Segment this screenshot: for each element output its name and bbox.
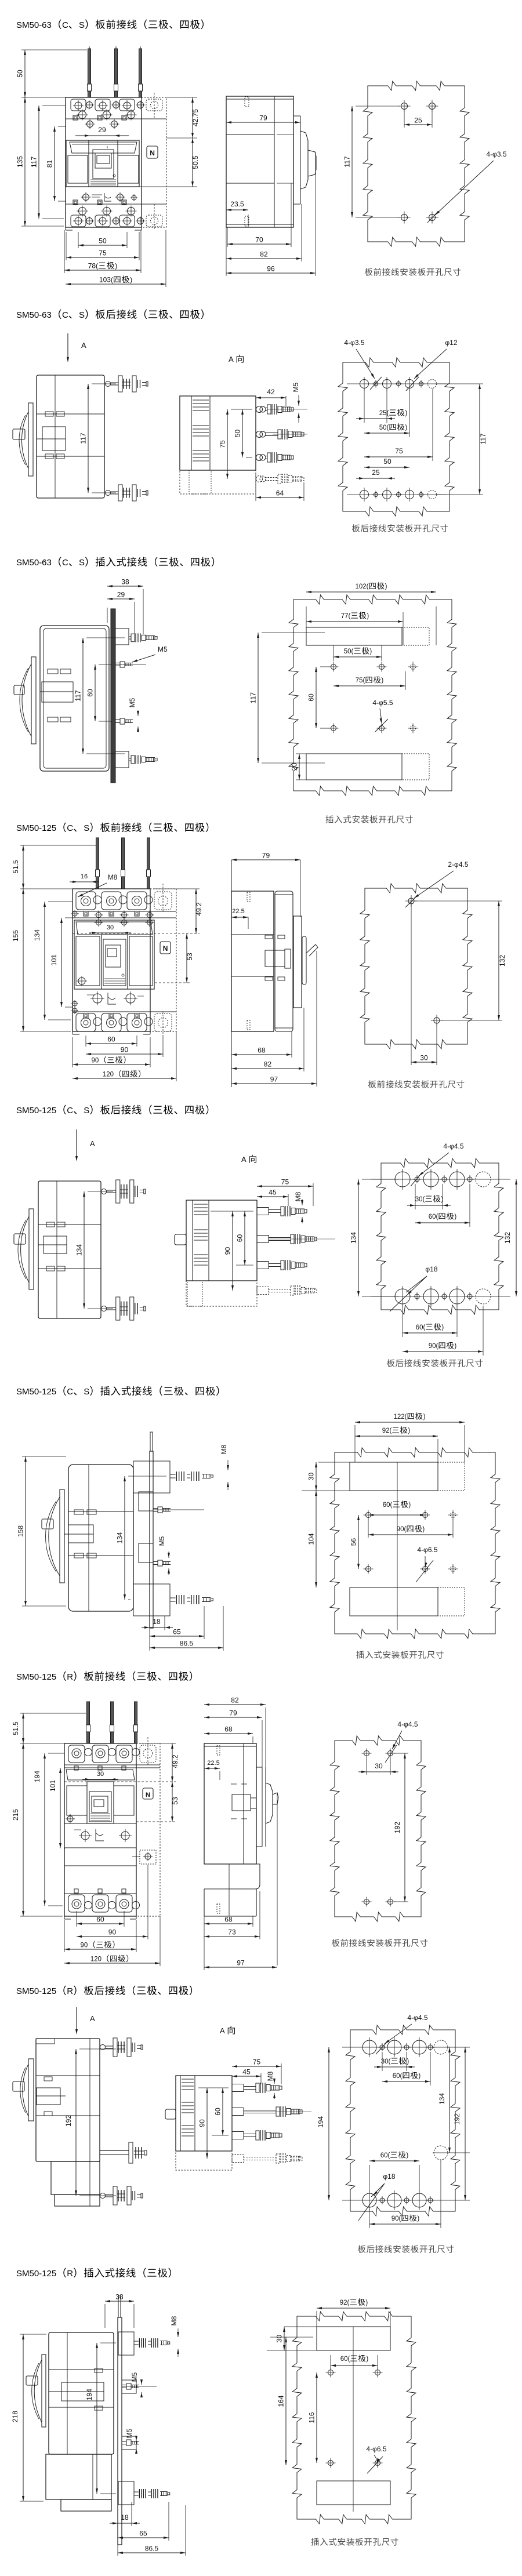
svg-text:A: A (90, 1139, 95, 1148)
A-view stud pole2 (232, 2108, 244, 2116)
plate dimension 30 slot height (318, 1462, 350, 1463)
svg-text:φ18: φ18 (425, 1265, 437, 1273)
svg-text:): ) (422, 1526, 425, 1533)
plate dimension 134 left (362, 1179, 399, 1180)
bottom dimension 120 (4-pole) (176, 1031, 177, 1081)
dimension 38 (104, 2304, 106, 2328)
N-pole marking box (143, 1788, 153, 1799)
dimension 38 (107, 608, 108, 623)
top bracket block (118, 2332, 134, 2355)
svg-text:M8: M8 (266, 2071, 274, 2081)
mounting plate board-rear 125 (376, 1158, 503, 1314)
front view SM50-63 body outline (66, 97, 142, 227)
dimension 192 stud spacing (79, 2048, 116, 2050)
svg-text:97: 97 (270, 1076, 278, 1084)
svg-text:60: 60 (236, 1234, 244, 1242)
upper pilot bracket and stud (139, 1492, 153, 1511)
svg-text:92(: 92( (340, 2299, 350, 2306)
svg-text:132: 132 (498, 955, 506, 967)
caption board-rear plate 125 (387, 1359, 395, 1367)
plate hole bottom-left (401, 215, 408, 221)
left fixing screws (72, 1001, 77, 1006)
svg-text:104: 104 (307, 1533, 316, 1545)
svg-text:SM50-125: SM50-125 (16, 1387, 56, 1397)
bottom dimensions 18 65 86.5 (149, 1628, 150, 1651)
plate top slot (317, 2327, 390, 2350)
auxiliary terminal dotted (140, 1850, 156, 1864)
plate dimension 116 (316, 2372, 317, 2463)
front view 4-pole dashed extension (136, 1743, 160, 1916)
mechanism column (101, 935, 128, 989)
operating toggle assembly (60, 1489, 64, 1583)
plate dimension 60 (4-pole) (469, 1184, 470, 1227)
terminal pins (87, 1702, 90, 1743)
svg-text:4-φ4.5: 4-φ4.5 (407, 2014, 427, 2022)
plate dimension 25 (3-pole) (364, 388, 365, 423)
svg-text:R: R (67, 1986, 73, 1996)
toggle shaft box (42, 682, 73, 702)
dimension 194 (48, 1753, 64, 1754)
trip unit row (93, 994, 102, 1003)
svg-text:90(: 90( (397, 1526, 407, 1533)
screw and pole-number row (72, 911, 77, 916)
A-view dimension 50 (246, 457, 252, 458)
svg-text:117: 117 (79, 433, 88, 444)
bottom dimension 90 (3-pole) (64, 1920, 65, 1952)
svg-text:75: 75 (281, 1178, 289, 1186)
caption plug-in plate (325, 815, 333, 823)
plate dimension 30 (366, 1758, 367, 1775)
mounting plate board-rear drill plan (338, 358, 454, 516)
side view dimension 79 (262, 1720, 263, 1767)
rear stud top row (101, 1189, 107, 1194)
svg-text:97: 97 (237, 1959, 245, 1967)
right pole chamber (129, 936, 153, 986)
side view dimension 79 (226, 122, 300, 123)
dimension 50.5 (139, 186, 197, 187)
plate left reference lines (262, 632, 325, 633)
plate centreline (397, 1462, 398, 1630)
plug-in side view body (40, 626, 109, 771)
svg-text:): ) (418, 2073, 420, 2080)
svg-text:50(: 50( (344, 648, 354, 655)
svg-text:): ) (407, 2058, 409, 2065)
svg-text:56: 56 (350, 1538, 358, 1546)
svg-text:): ) (406, 2152, 408, 2159)
svg-text:SM50-63: SM50-63 (16, 20, 52, 30)
plate centreline (353, 2327, 354, 2512)
svg-text:M5: M5 (125, 2428, 133, 2438)
side view dimension 22.5 (219, 1771, 220, 1780)
plate dimension 134 (449, 2047, 450, 2153)
svg-text:): ) (366, 2356, 368, 2363)
plate dimension 25 lower (364, 478, 387, 479)
svg-text:): ) (441, 1196, 443, 1203)
mechanism column (87, 1782, 114, 1823)
mounting plate bar (118, 2317, 122, 2545)
svg-text:16: 16 (81, 873, 88, 880)
A-view stud pole2 (256, 431, 263, 438)
plate upper holes (366, 1513, 371, 1518)
lower extension body R (46, 2454, 111, 2499)
svg-text:4-φ3.5: 4-φ3.5 (486, 150, 506, 158)
rear stud bottom row (100, 2193, 106, 2199)
A-view stud pole3 (232, 2132, 244, 2139)
svg-text:215: 215 (12, 1809, 20, 1821)
svg-text:22.5: 22.5 (207, 1760, 219, 1767)
svg-text:SM50-125: SM50-125 (16, 1986, 56, 1996)
svg-text:92(: 92( (382, 1427, 392, 1434)
svg-text:194: 194 (317, 2116, 325, 2128)
svg-text:135: 135 (16, 156, 24, 168)
svg-text:60(: 60( (416, 1324, 426, 1331)
svg-text:): ) (130, 276, 132, 284)
svg-text:101: 101 (50, 954, 58, 966)
plate bottom hole row phi18 (362, 2193, 376, 2207)
side view boss (265, 950, 285, 967)
right pole chamber (118, 155, 139, 183)
A-view dimension 45 (288, 1194, 289, 1206)
dimension 81 mechanism height (58, 126, 66, 127)
svg-text:): ) (369, 648, 372, 655)
svg-text:4-φ4.5: 4-φ4.5 (397, 1720, 418, 1728)
N-pole marking box (147, 146, 158, 158)
svg-text:M5: M5 (158, 645, 168, 653)
plate dimension 60 (3-pole) bottom (402, 1306, 403, 1337)
bottom dimension 60 (76, 1911, 77, 1927)
svg-text:90(: 90( (391, 2215, 401, 2222)
svg-text:134: 134 (350, 1232, 358, 1244)
view direction arrow A (76, 2007, 77, 2032)
svg-text:90: 90 (81, 1942, 88, 1949)
plate top hole row phi18 (395, 1172, 410, 1187)
A-view dimension 90 (198, 2087, 229, 2088)
A-view dimension 60 (212, 2135, 229, 2136)
side view bottom dimensions 68 73 97 (252, 1916, 253, 1927)
svg-text:79: 79 (229, 1709, 237, 1717)
svg-text:29: 29 (98, 126, 106, 134)
svg-text:30: 30 (375, 1762, 383, 1770)
svg-text:): ) (365, 2299, 368, 2306)
plate dimension 117 (356, 106, 400, 107)
case feet (64, 1916, 65, 1919)
caption R board-front plate (332, 1939, 340, 1946)
top bracket block (133, 1461, 170, 1493)
left pole chamber (67, 1786, 87, 1815)
side view dimension 68 (252, 1736, 253, 1743)
bottom bracket block (118, 2481, 134, 2505)
plate lower holes (328, 2461, 333, 2466)
svg-text:30: 30 (420, 1054, 428, 1062)
A-direction view body (180, 396, 256, 470)
plug-in mounting plate (289, 595, 456, 795)
case feet (65, 227, 66, 230)
svg-text:75: 75 (395, 447, 403, 455)
side view bracket plate (293, 916, 302, 1008)
svg-text:29: 29 (117, 591, 125, 599)
svg-text:68: 68 (224, 1725, 233, 1734)
caption board-front plate 125 (368, 1080, 376, 1088)
operating toggle assembly (29, 1209, 34, 1289)
plate upper holes (331, 664, 336, 670)
svg-text:2-φ4.5: 2-φ4.5 (448, 860, 468, 869)
plate dimension 92 (3-pole) (437, 1439, 438, 1462)
svg-text:158: 158 (17, 1525, 25, 1537)
plate dimension 50 (3-pole) (333, 645, 334, 661)
plate middle dashed hole (434, 2146, 448, 2160)
svg-text:68: 68 (224, 1916, 233, 1924)
top main stud M8 (170, 1474, 176, 1475)
dashed 4th pole top pad (140, 1745, 156, 1763)
bottom dimension 90 (162, 1036, 164, 1057)
dimension 134 (48, 901, 72, 902)
svg-text:C: C (62, 20, 68, 30)
bottom dimension 75 (66, 232, 67, 260)
svg-text:): ) (405, 424, 407, 431)
svg-text:49.2: 49.2 (171, 1754, 179, 1768)
front view 4-pole dashed extension (142, 97, 166, 227)
mounting plate board-front drill plan 125 (360, 884, 472, 1049)
svg-text:60(: 60( (429, 1213, 438, 1220)
svg-text:218: 218 (11, 2411, 19, 2422)
left pole chamber (76, 936, 100, 986)
A-view dimension 64 (255, 473, 256, 501)
svg-text:30(: 30( (381, 2058, 391, 2065)
svg-text:S: S (79, 558, 85, 568)
svg-text:18: 18 (153, 1618, 161, 1626)
svg-text:60: 60 (107, 1036, 115, 1044)
R extension boundary (64, 1865, 136, 1866)
A-view dashed N stud (257, 1287, 269, 1295)
toggle shaft box (68, 1525, 93, 1543)
bottom bracket block (133, 1584, 170, 1616)
plate lower holes (366, 1567, 371, 1572)
svg-text:S: S (84, 1106, 89, 1116)
caption board-rear plate (352, 524, 360, 532)
side view dimension 23.5 (248, 215, 249, 226)
svg-text:117: 117 (249, 692, 258, 703)
plate dimension 132 (415, 900, 502, 902)
hole row centrelines (342, 2047, 470, 2048)
plate dimension 50 (4-pole) (409, 388, 410, 437)
svg-text:C: C (62, 558, 68, 568)
svg-text:86.5: 86.5 (180, 1640, 194, 1648)
plate top hole row (360, 380, 369, 388)
operating toggle assembly (28, 2059, 34, 2121)
plate dimension 30 slot (284, 2326, 317, 2327)
svg-text:79: 79 (262, 852, 270, 860)
svg-text:192: 192 (64, 2115, 72, 2127)
svg-text:51.5: 51.5 (12, 860, 20, 874)
top locating rod (150, 1432, 153, 1451)
dimension 53 (155, 982, 190, 983)
lower extension body (51, 2161, 100, 2194)
front view 4-pole dashed extension (150, 889, 176, 1031)
plate dimension 60 vertical (320, 666, 329, 667)
svg-text:M8: M8 (220, 1444, 228, 1454)
plate bottom slot (306, 754, 402, 780)
svg-text:68: 68 (258, 1047, 266, 1055)
vent screws (87, 121, 93, 128)
svg-text:82: 82 (260, 250, 268, 259)
svg-text:122(: 122( (394, 1414, 407, 1420)
dimension 155 overall (20, 888, 72, 889)
rear stud bottom row (101, 1306, 107, 1311)
svg-text:): ) (454, 1213, 456, 1220)
A-view dashed N stud (256, 476, 263, 482)
svg-text:42: 42 (267, 388, 275, 396)
svg-text:86.5: 86.5 (145, 2545, 159, 2553)
A-view knob (175, 1234, 186, 1245)
svg-text:64: 64 (276, 489, 284, 497)
plate dimension 132 right (516, 1179, 517, 1296)
plate bottom slot (317, 2481, 390, 2505)
side view tabs (231, 1783, 237, 1785)
bottom main stud M8 (170, 1597, 176, 1598)
svg-text:194: 194 (33, 1771, 41, 1782)
svg-text:116: 116 (308, 2412, 316, 2423)
side view boss (232, 1794, 251, 1811)
dimension 53 (136, 1821, 176, 1822)
operating mechanism column (89, 140, 118, 187)
caption plug-in plate R (311, 2538, 318, 2545)
svg-text:30: 30 (107, 924, 114, 931)
N-pole marking box (160, 942, 171, 954)
svg-text:): ) (423, 1414, 426, 1420)
dimension 60 pilot spacing (99, 664, 112, 665)
plate lower holes (331, 726, 336, 731)
dashed 4th pole top pad (146, 99, 162, 111)
top terminal pads (71, 99, 86, 111)
mechanism frame (66, 140, 139, 187)
svg-text:M5: M5 (130, 2372, 139, 2382)
plate dimension 77 (3-pole) (403, 612, 404, 645)
svg-text:164: 164 (277, 2395, 285, 2407)
left side view body (38, 1181, 101, 1318)
svg-text:101: 101 (49, 1780, 57, 1792)
svg-text:SM50-125: SM50-125 (16, 1106, 56, 1116)
dimension 49.2 (153, 888, 200, 889)
svg-text:60(: 60( (383, 1502, 393, 1509)
case feet (72, 1031, 73, 1034)
top terminal pads (68, 1745, 85, 1763)
dashed 4th pole bottom pad (146, 215, 162, 227)
svg-text:M8: M8 (170, 2316, 178, 2326)
side view handle bracket (300, 116, 301, 204)
plate dimension 25 (404, 111, 405, 128)
svg-text:SM50-63: SM50-63 (16, 310, 52, 320)
svg-text:): ) (454, 1343, 456, 1350)
dimension 135 overall height (21, 97, 66, 98)
plate dimension 92 (3-pole) (316, 2311, 317, 2327)
A-view dimension 60 (236, 1265, 253, 1266)
svg-text:4-φ4.5: 4-φ4.5 (443, 1142, 463, 1150)
plate dimension 164 (270, 2337, 313, 2338)
svg-text:22.5: 22.5 (232, 908, 244, 915)
svg-text:134: 134 (75, 1244, 84, 1256)
A-view knob (165, 2109, 176, 2119)
svg-text:R: R (67, 2269, 73, 2279)
svg-text:60(: 60( (380, 2152, 390, 2159)
plate dimension 50 lower (364, 467, 409, 468)
svg-text:M5: M5 (128, 697, 136, 707)
dashed 4th pole bottom pad (154, 1013, 172, 1031)
plate dimension 104 (316, 1491, 317, 1587)
svg-text:49.2: 49.2 (195, 902, 203, 916)
svg-text:82: 82 (231, 1696, 239, 1705)
dimension 215 overall (20, 1743, 64, 1744)
svg-text:SM50-63: SM50-63 (16, 558, 52, 568)
svg-text:25: 25 (414, 117, 422, 125)
svg-text:90: 90 (92, 1058, 99, 1064)
mounting plate R board-front (330, 1736, 426, 1921)
svg-text:73: 73 (228, 1928, 236, 1936)
vent band (76, 922, 153, 935)
dimension 49.2 (139, 1743, 176, 1744)
svg-text:60: 60 (214, 2108, 222, 2116)
terminal pins (96, 838, 99, 889)
trip unit row (64, 1823, 136, 1824)
svg-text:): ) (405, 410, 407, 417)
A-view stud pole1 (257, 1208, 269, 1215)
svg-text:117: 117 (74, 690, 82, 701)
dimension 134 stud spacing (128, 1476, 166, 1477)
svg-text:A: A (229, 355, 234, 364)
svg-text:4-φ3.5: 4-φ3.5 (344, 339, 364, 347)
dashed 4th pole top pad (154, 892, 172, 910)
bottom terminal area (84, 1013, 88, 1018)
svg-text:53: 53 (186, 953, 194, 961)
side view dimension 22.5 (248, 917, 249, 929)
dimension 30 (90, 1779, 110, 1780)
plate dimension 60 (3-pole) bottom (369, 2165, 370, 2192)
plate dimension 30 bottom (411, 904, 412, 1065)
A-view dashed extension (186, 1281, 257, 1306)
A-view dimension 42 (285, 396, 287, 406)
pole number squares (74, 1766, 78, 1770)
rear stud middle row long (100, 2150, 129, 2152)
svg-text:): ) (417, 2215, 419, 2222)
dimension 218 overall (20, 2334, 46, 2335)
svg-text:117: 117 (343, 156, 351, 167)
svg-text:81: 81 (46, 160, 54, 168)
svg-text:φ12: φ12 (445, 339, 457, 347)
svg-text:75: 75 (219, 440, 227, 448)
rear stud bottom row (106, 491, 111, 496)
plate bottom hole row phi18 (395, 1289, 410, 1304)
A-view dimension 75 (313, 1183, 314, 1206)
svg-text:60: 60 (307, 693, 316, 702)
svg-text:102(: 102( (356, 583, 369, 590)
plate dimension 56 (358, 1515, 359, 1569)
svg-text:70: 70 (255, 236, 263, 244)
svg-text:77(: 77( (341, 613, 351, 620)
svg-text:A: A (90, 2014, 95, 2023)
plate dimension 60 (4-pole) (430, 2052, 431, 2085)
plate dimension 30 (3-pole) (415, 1184, 416, 1209)
svg-text:30(: 30( (415, 1196, 425, 1203)
dimension 194 stud spacing (100, 2342, 116, 2344)
svg-text:90: 90 (108, 1928, 117, 1936)
side view lower extension (204, 1864, 260, 1889)
svg-text:18: 18 (121, 2513, 129, 2521)
svg-text:C: C (67, 823, 73, 833)
caption R board-rear plate (358, 2245, 366, 2252)
svg-text:25: 25 (372, 468, 380, 477)
top locating rod (118, 2296, 121, 2317)
svg-text:SM50-125: SM50-125 (16, 823, 56, 833)
svg-text:C: C (62, 310, 68, 320)
